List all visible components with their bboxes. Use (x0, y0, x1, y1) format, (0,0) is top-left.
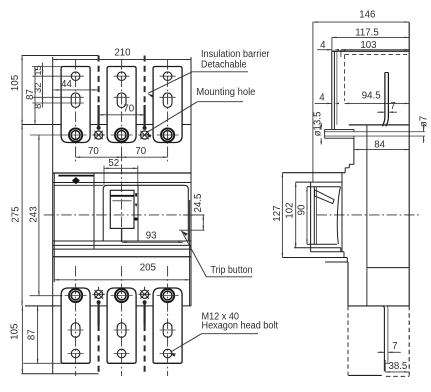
svg-text:7: 7 (390, 101, 395, 112)
svg-text:87: 87 (27, 329, 38, 340)
svg-text:52: 52 (108, 158, 119, 169)
svg-text:ø13.5: ø13.5 (312, 112, 323, 137)
svg-text:4: 4 (320, 40, 326, 51)
svg-text:Mounting hole: Mounting hole (196, 87, 255, 98)
svg-text:275: 275 (11, 206, 22, 222)
svg-text:Detachable: Detachable (201, 60, 247, 71)
svg-text:84: 84 (374, 140, 385, 151)
svg-text:103: 103 (360, 40, 376, 51)
svg-text:15: 15 (33, 65, 43, 75)
svg-text:205: 205 (140, 262, 156, 273)
svg-text:90: 90 (297, 204, 308, 215)
svg-text:93: 93 (146, 230, 157, 241)
svg-text:105: 105 (10, 75, 21, 91)
svg-text:Trip button: Trip button (211, 265, 253, 276)
svg-text:Insulation barrier: Insulation barrier (201, 49, 270, 60)
svg-text:210: 210 (114, 47, 131, 58)
svg-text:94.5: 94.5 (362, 91, 381, 102)
svg-text:Hexagon head bolt: Hexagon head bolt (202, 320, 279, 331)
svg-text:38.5: 38.5 (388, 361, 407, 372)
svg-text:243: 243 (28, 206, 39, 222)
svg-text:32: 32 (33, 83, 43, 93)
svg-text:146: 146 (359, 9, 375, 20)
svg-text:7: 7 (392, 341, 397, 352)
svg-text:8: 8 (33, 104, 43, 109)
svg-text:102: 102 (285, 202, 296, 218)
svg-text:127: 127 (272, 205, 283, 221)
svg-text:4: 4 (319, 92, 325, 103)
svg-text:44: 44 (61, 79, 72, 90)
svg-text:105: 105 (10, 324, 21, 340)
svg-text:70: 70 (88, 146, 99, 157)
svg-text:117.5: 117.5 (355, 28, 379, 39)
svg-text:24.5: 24.5 (193, 194, 204, 213)
svg-text:70: 70 (135, 146, 146, 157)
svg-text:70: 70 (123, 104, 134, 115)
svg-text:ø7: ø7 (419, 116, 430, 127)
